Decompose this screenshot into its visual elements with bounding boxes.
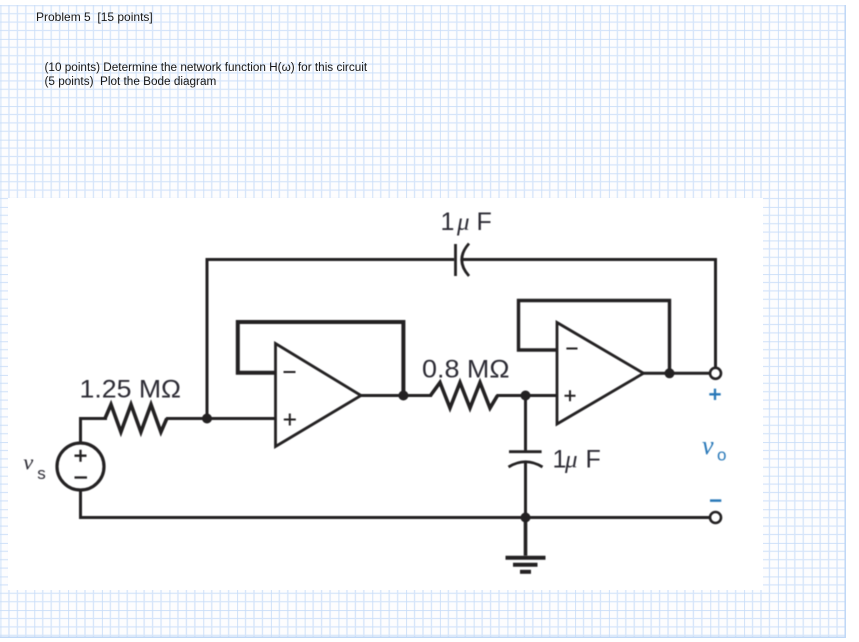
svg-text:v: v <box>702 431 714 460</box>
svg-text:1: 1 <box>441 208 455 236</box>
svg-text:1.25 MΩ: 1.25 MΩ <box>80 376 182 404</box>
svg-text:0.8 MΩ: 0.8 MΩ <box>422 356 510 384</box>
svg-text:μ: μ <box>456 209 470 236</box>
svg-text:F: F <box>477 208 492 236</box>
svg-text:v: v <box>23 450 33 475</box>
svg-text:s: s <box>37 464 46 483</box>
svg-text:o: o <box>717 446 726 465</box>
svg-text:F: F <box>586 446 601 474</box>
svg-text:μ: μ <box>564 447 578 474</box>
